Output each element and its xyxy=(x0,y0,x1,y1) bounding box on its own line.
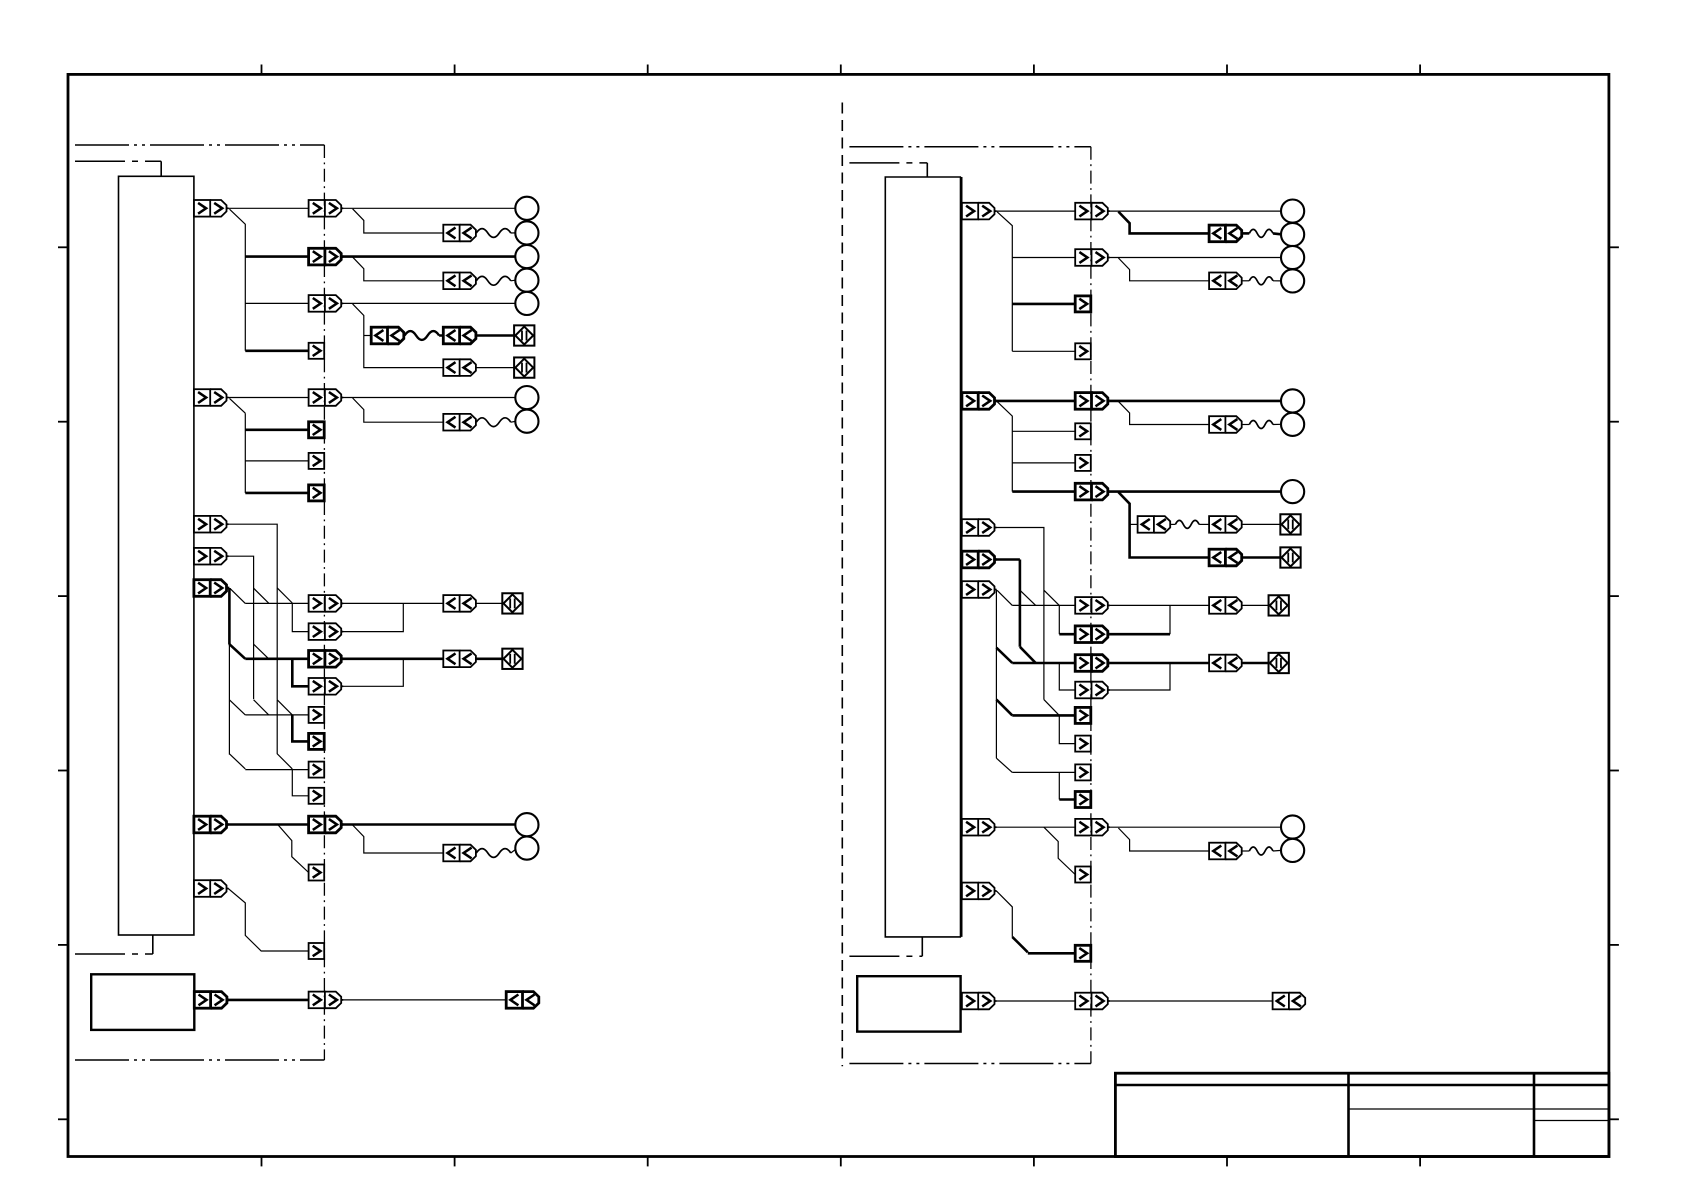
wire to connector C106 xyxy=(364,335,371,337)
wire branch C124 to connector C125 xyxy=(353,825,444,853)
wire C207 to lamp E14 xyxy=(1110,400,1281,403)
wire branch C14 to connector C227 xyxy=(1044,827,1075,874)
connector C122 xyxy=(443,595,476,612)
wire branch C103 to connector C104 xyxy=(353,257,444,281)
wire drop to connector C218 xyxy=(1059,663,1075,690)
wire C7 to connector C127 xyxy=(228,889,308,952)
wire into connector C215 xyxy=(1012,604,1075,606)
connector C229 at harness boundary xyxy=(1075,993,1110,1010)
wire C15 down xyxy=(996,891,1012,937)
connector C117 at harness boundary xyxy=(309,678,344,695)
wire to lamp E7 xyxy=(511,420,516,423)
wire C2 to C109 xyxy=(228,397,308,399)
connector C108 xyxy=(443,359,476,376)
wire C105 to lamp E5 xyxy=(343,302,515,304)
connector C225 at harness boundary xyxy=(1075,819,1110,836)
wire C123 to sounder H4 xyxy=(476,657,502,660)
connector C211 at harness boundary xyxy=(1075,483,1110,500)
wire C116 to C123 xyxy=(343,657,443,660)
wire branch C6 to connector C126 xyxy=(278,825,309,873)
connector C228 at harness boundary xyxy=(1075,945,1091,961)
connector C112 at harness boundary xyxy=(309,453,325,469)
connector C204 xyxy=(1209,273,1242,290)
title block xyxy=(1115,1073,1609,1156)
connector C106 xyxy=(371,327,404,344)
loop wire C216 return xyxy=(1169,605,1171,634)
wire branch C201 to connector C202 xyxy=(1118,212,1209,234)
harness boundary dash-dot top line 2 (left half) xyxy=(75,160,161,162)
wire C224 to sounder H8 xyxy=(1242,662,1269,665)
wire C16 to C229 xyxy=(996,1000,1075,1002)
connector C101 at harness boundary xyxy=(309,200,344,217)
wire C4 right and down xyxy=(228,556,253,699)
wire C213 to sounder H5 xyxy=(1242,523,1281,525)
harness boundary dash-dot bottom line 1 (left half) xyxy=(75,953,153,955)
harness boundary dash-dot top line 1 (right half) xyxy=(849,146,1091,148)
connector C207 at harness boundary xyxy=(1075,393,1110,410)
connector C110 xyxy=(443,414,476,431)
connector C120 at harness boundary xyxy=(309,762,325,778)
wire C12 right xyxy=(996,558,1020,561)
connector C209 at harness boundary xyxy=(1075,423,1091,439)
wire C10 to C207 xyxy=(996,400,1075,403)
wire branch C211 down to connector C214 xyxy=(1118,492,1209,557)
sounder H3 xyxy=(502,593,522,613)
lamp E12 xyxy=(1281,246,1304,269)
wire C9 to C201 xyxy=(996,210,1075,212)
lamp E14 xyxy=(1281,389,1304,412)
wire to connector C203 xyxy=(1012,257,1075,259)
wire C2 branch vertical xyxy=(244,413,246,493)
connector column dashed line (right half) xyxy=(1090,147,1092,1064)
diagonal C13 to C221 line xyxy=(996,758,1012,772)
connector C2 on ECU U1 xyxy=(194,389,229,406)
wire drop to connector C121 xyxy=(292,770,308,796)
loop wire C115 return xyxy=(343,603,403,631)
resistive wire W8 xyxy=(1249,421,1273,429)
frame zone tick marks top xyxy=(261,65,263,75)
wire to connector C211 xyxy=(1012,490,1075,493)
wire to connector C209 xyxy=(1012,430,1075,432)
lamp E5 xyxy=(515,292,538,315)
wire drop to connector C222 xyxy=(1058,772,1060,799)
wire stub ECU U1 bottom to boundary xyxy=(152,935,154,954)
wire into connector C228 xyxy=(1028,952,1075,955)
connector C124 at harness boundary xyxy=(309,816,344,833)
connector C13 on ECU U2 xyxy=(962,581,997,598)
connector C1 on ECU U1 xyxy=(194,200,229,217)
wire drop to connector C115 xyxy=(292,603,308,631)
wire drop to connector C119 xyxy=(292,715,308,742)
wire branch C109 to connector C110 xyxy=(353,398,444,422)
wire C122 to sounder H3 xyxy=(476,602,502,604)
sounder H8 xyxy=(1269,653,1289,673)
wire C2 branch diagonal xyxy=(230,398,246,413)
connector C113 at harness boundary xyxy=(309,485,325,501)
wire C223 to sounder H7 xyxy=(1242,604,1269,606)
wire C6 to C124 xyxy=(228,823,308,826)
wire C211 to lamp E16 xyxy=(1110,490,1281,493)
wire to lamp E15 xyxy=(1273,423,1281,425)
connector C10 on ECU U2 xyxy=(962,393,997,410)
wire C109 to lamp E6 xyxy=(343,397,515,399)
connector C14 on ECU U2 xyxy=(962,819,997,836)
wire into connector C118 xyxy=(245,714,308,716)
lamp E8 xyxy=(515,813,538,836)
connector C130 at harness boundary xyxy=(309,343,325,359)
diagonal C13 to C215 line xyxy=(997,590,1012,605)
diagonal C5 to C114 line xyxy=(230,589,245,604)
wire C103 to lamp E3 xyxy=(343,255,515,258)
diagonal C11 to C219 line junction xyxy=(1044,700,1059,716)
wire C114 to C122 xyxy=(343,602,443,604)
connector C11 on ECU U2 xyxy=(962,519,997,536)
wire into connector C116 xyxy=(245,657,308,660)
wire C9 branch vertical xyxy=(997,212,1012,351)
connector C226 xyxy=(1209,843,1242,860)
wire stub boundary to ECU U1 top xyxy=(160,161,162,176)
wire to connector C103 xyxy=(245,255,308,258)
resistive wire W6 xyxy=(1249,229,1273,237)
wire C215 to C223 xyxy=(1110,604,1210,606)
wire W6 stub xyxy=(1242,232,1250,235)
diagonal C4 to C114 line xyxy=(254,588,269,603)
wire C108 to sounder H2 xyxy=(476,367,514,369)
wire C201 to lamp E10 xyxy=(1110,210,1281,212)
connector C105 at harness boundary xyxy=(309,295,344,312)
wire branch C101 to connector C102 xyxy=(353,209,444,233)
connector C6 on ECU U1 xyxy=(194,816,229,833)
relay unit K2 xyxy=(857,976,960,1031)
sounder H5 xyxy=(1280,514,1300,534)
connector column dashed line (left half) xyxy=(323,145,325,1060)
relay unit K1 xyxy=(91,974,194,1030)
harness boundary dash-dot bottom line 2 (left half) xyxy=(75,1059,324,1061)
sounder H4 xyxy=(502,649,522,669)
frame zone tick marks bottom xyxy=(261,1157,263,1167)
lamp E16 xyxy=(1281,480,1304,503)
lamp E1 xyxy=(515,197,538,220)
connector C114 at harness boundary xyxy=(309,595,344,612)
connector C222 at harness boundary xyxy=(1075,792,1091,808)
wire to lamp E13 xyxy=(1273,280,1281,282)
wire to lamp E2 xyxy=(511,232,516,234)
resistive wire W9 xyxy=(1175,520,1199,528)
wire C5 vertical thin lower xyxy=(228,645,230,755)
connector C126 at harness boundary xyxy=(309,865,325,881)
connector C205 at harness boundary xyxy=(1075,296,1091,312)
wire to connector C210 xyxy=(1012,462,1075,464)
wire C124 to lamp E8 xyxy=(343,823,515,826)
wire C229 to connector C230 xyxy=(1110,1000,1273,1002)
connector C107 xyxy=(443,327,476,344)
wire C10 branch vertical xyxy=(997,402,1012,492)
connector C208 xyxy=(1209,416,1242,433)
connector C121 at harness boundary xyxy=(309,788,325,804)
diagonal C12 to C217 line xyxy=(1020,647,1036,663)
wire branch C225 to connector C226 xyxy=(1118,828,1209,851)
connector C116 at harness boundary xyxy=(309,651,344,668)
wire into connector C120 xyxy=(245,769,308,771)
connector C218 at harness boundary xyxy=(1075,682,1110,699)
connector C221 at harness boundary xyxy=(1075,764,1091,780)
wire W7 stub xyxy=(1242,280,1250,282)
harness boundary dash-dot top line 2 (right half) xyxy=(849,162,927,164)
harness boundary dash-dot bottom line 1 (right half) xyxy=(849,955,922,957)
wire to connector C105 xyxy=(245,302,308,304)
wire to connector C130 xyxy=(245,349,308,352)
connector C128 at harness boundary xyxy=(309,992,344,1009)
connector C111 at harness boundary xyxy=(309,422,325,438)
wire to lamp E9 xyxy=(511,850,516,854)
wire into connector C221 xyxy=(1012,771,1075,773)
harness boundary dash-dot top line 1 (left half) xyxy=(75,144,324,146)
connector C206 at harness boundary xyxy=(1075,343,1091,359)
loop wire C218 return xyxy=(1110,663,1170,690)
wire to connector C111 xyxy=(245,428,308,431)
harness boundary dash-dot bottom line 2 (right half) xyxy=(849,1063,1091,1065)
diagonal C4 to C116 line xyxy=(254,644,269,659)
connector C216 at harness boundary xyxy=(1075,626,1110,643)
wire C8 to C128 xyxy=(228,999,308,1002)
wire to lamp E18 xyxy=(1273,849,1281,852)
long dashed boundary line (right half) xyxy=(841,103,843,1067)
connector C217 at harness boundary xyxy=(1075,655,1110,672)
connector C224 xyxy=(1209,655,1242,672)
wire drop to connector C216 xyxy=(1058,605,1060,634)
wire C3 right and down xyxy=(228,524,277,700)
lamp E2 xyxy=(515,221,538,244)
resistive wire W10 xyxy=(1249,847,1273,855)
connector C118 at harness boundary xyxy=(309,707,325,723)
wire C214 to sounder H6 xyxy=(1242,556,1281,559)
connector C102 xyxy=(443,225,476,242)
wire W8 stub xyxy=(1242,424,1250,426)
wire branch C207 to connector C208 xyxy=(1118,401,1209,424)
wire C3 vertical lower / diagonal to C120 line xyxy=(277,700,292,769)
wire stub boundary to ECU U2 top xyxy=(926,163,928,177)
diagonal C5 to C116 line xyxy=(229,644,245,659)
wire W10 stub xyxy=(1242,850,1250,852)
wire C203 to lamp E12 xyxy=(1110,257,1281,259)
wire branch C105 down to connector C108 xyxy=(353,304,444,368)
diagonal C11 to C215 line xyxy=(1044,590,1059,605)
diagonal C12 to C215 line xyxy=(1020,590,1036,605)
resistive wire W5 xyxy=(476,849,511,858)
resistive wire W2 xyxy=(476,276,511,285)
wire C101 to lamp E1 xyxy=(343,207,515,209)
sounder H1 xyxy=(514,325,534,345)
connector C8 on relay K1 xyxy=(194,992,229,1009)
wire C217 to C224 xyxy=(1110,662,1210,665)
connector C5 on ECU U1 xyxy=(194,580,229,597)
lamp E17 xyxy=(1281,815,1304,838)
connector C227 at harness boundary xyxy=(1075,867,1091,883)
connector C119 at harness boundary xyxy=(309,733,325,749)
connector C203 at harness boundary xyxy=(1075,249,1110,266)
wire into connector C114 xyxy=(245,602,308,604)
wire C11 right and down xyxy=(996,528,1044,700)
diagonal C5 to C118 line xyxy=(229,700,245,715)
wire C128 to connector C129 xyxy=(343,999,506,1001)
connector C129 xyxy=(506,992,539,1009)
wire into connector C219 xyxy=(1012,714,1075,717)
connector C123 xyxy=(443,651,476,668)
connector C104 xyxy=(443,273,476,290)
wire into connector C217 xyxy=(1012,662,1075,665)
lamp E15 xyxy=(1281,413,1304,436)
wire to lamp E11 xyxy=(1273,232,1281,236)
connector C12 on ECU U2 xyxy=(962,551,997,568)
connector C115 at harness boundary xyxy=(309,623,344,640)
ECU U1 xyxy=(119,176,194,935)
lamp E9 xyxy=(515,837,538,860)
wire to connector C113 xyxy=(245,492,308,495)
lamp E13 xyxy=(1281,269,1304,292)
wire C225 to lamp E17 xyxy=(1110,826,1281,828)
connector C230 xyxy=(1273,993,1306,1010)
connector C215 at harness boundary xyxy=(1075,597,1110,614)
connector C210 at harness boundary xyxy=(1075,455,1091,471)
diagonal C15 to C228 xyxy=(1012,937,1028,952)
resistive wire W1 xyxy=(476,229,511,238)
connector C202 xyxy=(1209,225,1242,242)
lamp E3 xyxy=(515,245,538,268)
wire C1 to C101 xyxy=(228,207,308,209)
wire C12 vertical thick xyxy=(1019,560,1022,647)
ECU U2 xyxy=(885,177,961,937)
diagonal C4 to C118 line xyxy=(254,700,269,715)
lamp E10 xyxy=(1281,200,1304,223)
wire to connector C212 xyxy=(1130,523,1138,525)
sounder H6 xyxy=(1280,547,1300,567)
connector C214 xyxy=(1209,549,1242,566)
connector C16 on relay K2 xyxy=(962,993,997,1010)
lamp E18 xyxy=(1281,839,1304,862)
diagonal C5 to C120 line xyxy=(229,754,245,769)
diagonal C13 to C219 line xyxy=(996,700,1012,716)
lamp E7 xyxy=(515,410,538,433)
connector C9 on ECU U2 xyxy=(962,203,997,220)
connector C201 at harness boundary xyxy=(1075,203,1110,220)
wire drop to connector C220 xyxy=(1059,715,1075,743)
connector C223 xyxy=(1209,597,1242,614)
connector C212 xyxy=(1138,516,1171,533)
connector C109 at harness boundary xyxy=(309,389,344,406)
wire C5 vertical thick xyxy=(228,588,231,645)
frame zone tick marks right xyxy=(1609,246,1619,248)
connector C15 on ECU U2 xyxy=(962,883,997,900)
resistive wire W4 xyxy=(476,418,511,427)
sounder H7 xyxy=(1269,595,1289,615)
wire drop to connector C117 xyxy=(292,659,308,687)
resistive wire W3 xyxy=(405,331,440,340)
diagonal C3 to C114 line xyxy=(277,588,292,603)
lamp E4 xyxy=(515,269,538,292)
connector C219 at harness boundary xyxy=(1075,707,1091,723)
diagonal C13 to C217 line xyxy=(996,648,1012,663)
wire branch C203 to connector C204 xyxy=(1118,258,1209,281)
wire C14 to C225 xyxy=(996,826,1075,828)
connector C3 on ECU U1 xyxy=(194,516,229,533)
sounder H2 xyxy=(514,357,534,377)
connector C103 at harness boundary xyxy=(309,248,344,265)
frame zone tick marks left xyxy=(58,246,68,248)
diagonal C3 to C118 line junction xyxy=(277,700,292,715)
lamp E6 xyxy=(515,386,538,409)
wire C13 vertical xyxy=(995,590,997,759)
wire to connector C112 xyxy=(245,460,308,462)
connector C127 at harness boundary xyxy=(309,943,325,959)
connector C125 xyxy=(443,845,476,862)
connector C7 on ECU U1 xyxy=(194,880,229,897)
resistive wire W7 xyxy=(1249,277,1273,285)
wire to connector C205 xyxy=(1012,303,1075,306)
wire C1 branch vertical xyxy=(230,209,246,351)
wire to connector C206 xyxy=(1012,350,1075,352)
wire stub ECU U2 bottom to boundary xyxy=(921,937,923,956)
wire to lamp E4 xyxy=(511,279,516,282)
connector C4 on ECU U1 xyxy=(194,548,229,565)
connector C220 at harness boundary xyxy=(1075,736,1091,752)
loop wire C117 return xyxy=(343,659,403,687)
wire C107 to sounder H1 xyxy=(476,334,514,337)
lamp E11 xyxy=(1281,223,1304,246)
connector C213 xyxy=(1209,516,1242,533)
